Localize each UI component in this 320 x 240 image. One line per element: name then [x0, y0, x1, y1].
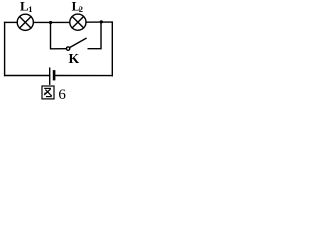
label L1 [20, 0, 32, 14]
svg-text:1: 1 [28, 4, 32, 14]
node B junction dot [100, 20, 103, 23]
wire node A to L2 [51, 21, 70, 23]
caption 图 (figure) drawn as strokes [42, 86, 54, 99]
wire L1 to node A [34, 21, 51, 23]
svg-text:6: 6 [58, 87, 66, 103]
node A junction dot [49, 21, 52, 24]
wire bottom-right segment [56, 75, 113, 77]
wire switch to branch right vertical [88, 22, 101, 49]
wire L2 to node B and top-right corner [86, 21, 112, 23]
label L2 [72, 0, 83, 14]
wire bottom-left segment [5, 75, 50, 77]
wire right edge [111, 22, 113, 76]
lamp L1 [17, 14, 33, 30]
battery B1 [50, 68, 54, 84]
wire top-left segment [5, 21, 18, 23]
switch K [66, 38, 86, 50]
svg-text:K: K [69, 51, 80, 66]
wire left edge [4, 22, 6, 75]
wire branch left vertical from node A [51, 23, 67, 49]
svg-text:2: 2 [79, 4, 83, 14]
lamp L2 [70, 14, 86, 30]
